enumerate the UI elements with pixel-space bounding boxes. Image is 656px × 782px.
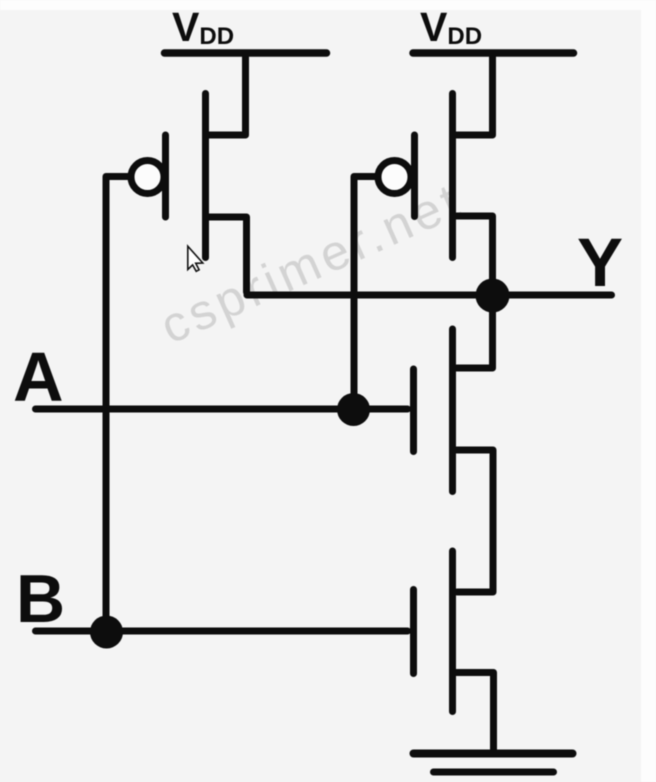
pmos Q1 gate bubble bbox=[131, 161, 164, 194]
pmos Q2 channel bar bbox=[449, 94, 456, 258]
watermark csprimer.net bbox=[152, 172, 471, 355]
pmos Q1 gate bar bbox=[162, 135, 169, 217]
nmos Q4 gate bar bbox=[410, 590, 417, 674]
nmos Q3 gate bar bbox=[410, 369, 417, 452]
pmos Q1 channel bar bbox=[202, 94, 209, 258]
nmos Q3 drain wire from node Y bbox=[457, 298, 493, 368]
svg-text:A: A bbox=[13, 338, 64, 416]
svg-text:B: B bbox=[16, 561, 65, 637]
svg-text:Y: Y bbox=[577, 224, 623, 301]
nmos Q4 channel bar bbox=[449, 551, 456, 712]
nmos Q3 source wire to nmos Q4 drain bbox=[457, 450, 494, 592]
VDD rail bar (left) bbox=[165, 49, 327, 57]
wire output node Y bbox=[247, 292, 612, 299]
wire A input bbox=[36, 406, 408, 413]
pmos Q1 source wire to VDD bbox=[209, 56, 246, 135]
wire B input bbox=[36, 628, 408, 635]
pmos Q2 source wire to VDD bbox=[457, 56, 493, 135]
wire A to pmos Q2 gate bbox=[354, 177, 377, 407]
ground bbox=[414, 750, 573, 758]
junction dot node B bbox=[90, 616, 123, 649]
VDD rail bar (right) bbox=[413, 49, 574, 57]
nmos Q3 channel bar bbox=[449, 329, 456, 492]
nmos Q4 source wire to ground bbox=[457, 673, 494, 753]
wire B to pmos Q1 gate bbox=[106, 177, 130, 633]
mouse cursor bbox=[188, 246, 203, 271]
junction dot node Y bbox=[476, 279, 510, 313]
junction dot node A bbox=[337, 393, 370, 426]
pmos Q2 gate bar bbox=[411, 135, 418, 217]
pmos Q2 gate bubble bbox=[378, 161, 411, 194]
pmos Q2 drain wire to node Y bbox=[457, 216, 493, 291]
pmos Q1 drain wire to node Y bbox=[209, 217, 247, 292]
